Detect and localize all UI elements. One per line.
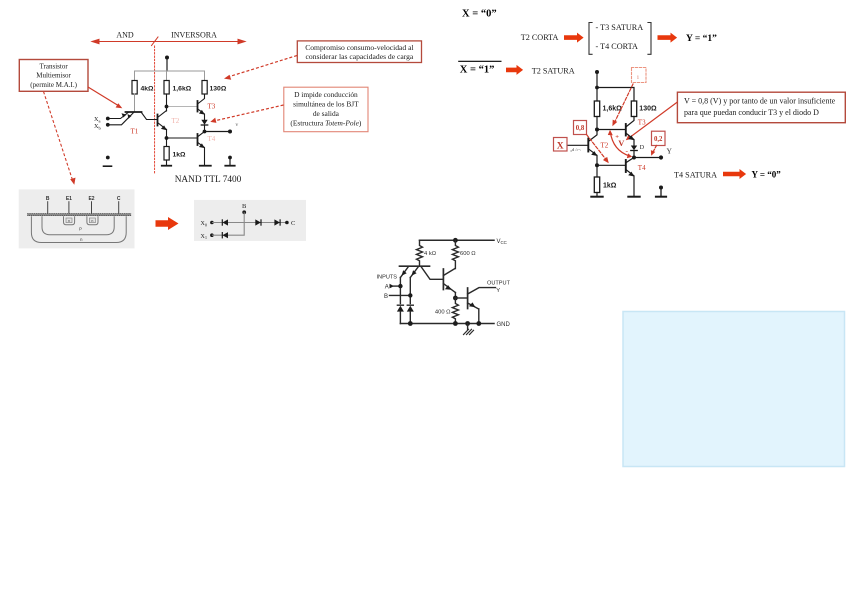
svg-text:T4 SATURA: T4 SATURA bbox=[674, 170, 717, 179]
n region outline bbox=[31, 216, 126, 242]
Vcc terminal dot bbox=[595, 70, 599, 74]
svg-text:n: n bbox=[68, 219, 70, 223]
T1 input dot Xb bbox=[106, 123, 110, 127]
node B dot bbox=[242, 210, 246, 214]
T1 emitter 2 bbox=[109, 113, 134, 125]
T4 emitter with arrow bbox=[626, 170, 634, 197]
svg-text:T3: T3 bbox=[638, 119, 646, 127]
svg-text:1,6kΩ: 1,6kΩ bbox=[173, 86, 192, 93]
T3 collector bbox=[626, 117, 634, 128]
terminal stub E2 bbox=[91, 201, 93, 213]
svg-text:T2 SATURA: T2 SATURA bbox=[532, 66, 575, 75]
svg-text:AND: AND bbox=[116, 31, 134, 40]
svg-text:0,8: 0,8 bbox=[576, 125, 585, 132]
SECTION: middle scanned circuit bbox=[377, 238, 511, 335]
svg-text:T3: T3 bbox=[208, 103, 216, 111]
svg-text:0,2: 0,2 bbox=[654, 136, 663, 143]
transistor T3 base bar bbox=[197, 101, 199, 112]
wire B to C bbox=[244, 222, 287, 224]
svg-text:B: B bbox=[46, 196, 50, 202]
T4 collector bbox=[198, 132, 205, 137]
diode B-X0 (points left) bbox=[221, 219, 223, 225]
SECTION: annotations bbox=[19, 41, 421, 185]
svg-text:T2: T2 bbox=[172, 117, 180, 125]
svg-text:T4: T4 bbox=[208, 135, 216, 143]
block arrow 1 bbox=[564, 33, 584, 43]
svg-text:600 Ω: 600 Ω bbox=[460, 251, 476, 257]
T2 input wire from X bbox=[568, 144, 589, 146]
svg-text:C: C bbox=[291, 220, 295, 227]
SECTION: top-right analysis bbox=[458, 9, 845, 180]
svg-text:VCC: VCC bbox=[497, 239, 507, 245]
svg-text:para que puedan conducir T3 y: para que puedan conducir T3 y el diodo D bbox=[684, 108, 819, 117]
dashed arrow 0,8 to T4 base bbox=[587, 135, 607, 160]
Q2 emitter with arrow bbox=[443, 284, 455, 293]
svg-text:Compromiso consumo-velocidad a: Compromiso consumo-velocidad al bbox=[305, 43, 413, 52]
dashed arrow box to cross-section bbox=[44, 92, 73, 181]
svg-text:n: n bbox=[91, 219, 93, 223]
clamp diode A bbox=[397, 304, 403, 306]
right bracket bbox=[647, 23, 651, 55]
Q3 collector to OUTPUT bbox=[468, 288, 496, 294]
SECTION: right circuit X=1 bbox=[554, 68, 673, 197]
resistor 1k bbox=[166, 138, 168, 147]
SECTION: cross-section panel bbox=[19, 189, 135, 248]
svg-text:D impide conducción: D impide conducción bbox=[294, 90, 358, 99]
svg-text:X0: X0 bbox=[201, 221, 208, 227]
wire 1,6k to node bbox=[596, 117, 598, 130]
transistor T1 multi-emitter base bar bbox=[126, 111, 142, 113]
svg-text:Y = “1”: Y = “1” bbox=[686, 33, 717, 44]
svg-text:T2 CORTA: T2 CORTA bbox=[521, 33, 559, 42]
T2 collector bbox=[158, 111, 167, 118]
svg-text:₀d ⌂¬: ₀d ⌂¬ bbox=[571, 147, 581, 152]
red dashed current box bbox=[632, 68, 647, 83]
T2 collector bbox=[588, 130, 597, 142]
svg-text:D: D bbox=[640, 145, 645, 151]
svg-text:V: V bbox=[618, 138, 625, 148]
terminal stub C bbox=[118, 201, 120, 213]
T3 collector bbox=[198, 94, 205, 104]
ground stub right bbox=[228, 156, 232, 160]
svg-text:Y: Y bbox=[667, 147, 673, 156]
resistor 4k (zigzag) bbox=[417, 240, 423, 266]
svg-text:v: v bbox=[236, 122, 239, 128]
node T2 emitter / T4 base / 1k bbox=[165, 136, 169, 140]
ground symbol stub bbox=[467, 324, 469, 330]
ground under 1k bbox=[162, 165, 171, 167]
X1 terminal dot bbox=[210, 233, 214, 237]
block arrow 2 bbox=[658, 33, 678, 43]
transistor T3 base bar bbox=[625, 124, 627, 136]
ground under T4 bbox=[200, 165, 211, 167]
wire output bbox=[205, 131, 231, 133]
resistor 400 (zigzag) bbox=[452, 298, 458, 324]
input emitter B diagonal bbox=[410, 267, 418, 278]
transistor Q3 base bar bbox=[467, 288, 469, 309]
wire Vcc down bbox=[596, 72, 598, 88]
callout box: Compromiso consumo-velocidad bbox=[297, 41, 421, 63]
transistor T4 base bar bbox=[625, 160, 627, 172]
resistor 1,6k bbox=[594, 101, 599, 117]
GND rail bbox=[400, 323, 494, 325]
panel background bbox=[194, 200, 306, 241]
output node bbox=[203, 130, 207, 134]
diode D bbox=[631, 146, 637, 151]
svg-text:4kΩ: 4kΩ bbox=[141, 86, 155, 93]
svg-text:130Ω: 130Ω bbox=[210, 86, 227, 93]
svg-text:X: X bbox=[557, 141, 564, 151]
svg-text:400 Ω: 400 Ω bbox=[435, 310, 451, 316]
wire node to T3 base bbox=[167, 106, 198, 108]
svg-text:- T4 CORTA: - T4 CORTA bbox=[596, 42, 638, 51]
input line A vertical bbox=[399, 278, 401, 304]
resistor 4k bbox=[132, 81, 137, 95]
T3 emitter with arrow bbox=[626, 133, 634, 145]
ground under T4 bbox=[628, 196, 639, 198]
transistor Q2 base bar bbox=[442, 269, 444, 290]
C terminal dot bbox=[285, 221, 289, 225]
red dashed divider line bbox=[154, 46, 156, 174]
svg-text:A: A bbox=[385, 285, 389, 291]
callout box: D impide conduccion bbox=[284, 87, 368, 132]
Vcc rail bbox=[420, 239, 495, 241]
T4 base wire bbox=[167, 137, 198, 139]
wire X0 row bbox=[212, 222, 244, 224]
ground stub right bbox=[659, 186, 663, 190]
svg-text:(Estructura Totem-Pole): (Estructura Totem-Pole) bbox=[290, 118, 362, 127]
n-well E1 bbox=[64, 216, 75, 225]
output node dot bbox=[632, 156, 636, 160]
wire node to T3 base bbox=[597, 129, 625, 131]
svg-text:E1: E1 bbox=[66, 196, 72, 202]
dashed arrow 0,2 to Y node bbox=[653, 146, 657, 153]
callout box: V = 0,8 insuficiente bbox=[677, 92, 845, 123]
resistor 600 (zigzag) bbox=[452, 240, 458, 268]
node T2 emitter / T4 base bbox=[595, 163, 599, 167]
output terminal dot bbox=[228, 130, 232, 134]
transistor T4 base bar bbox=[197, 134, 199, 145]
wire Vcc down bbox=[166, 58, 168, 72]
T3 emitter with arrow bbox=[198, 109, 205, 120]
X0 terminal dot bbox=[210, 221, 214, 225]
svg-text:T1: T1 bbox=[131, 128, 139, 136]
svg-text:B: B bbox=[242, 203, 247, 210]
overline of X=1 bbox=[458, 60, 501, 62]
ground stub left inputs bbox=[106, 156, 110, 160]
node Q2 emitter / Q3 base bbox=[453, 296, 458, 301]
terminal stub E1 bbox=[68, 201, 70, 213]
panel background bbox=[19, 189, 135, 248]
wire top rail bbox=[135, 71, 205, 94]
Q3 base wire bbox=[455, 297, 467, 299]
wire to output bbox=[634, 157, 661, 159]
block arrow 3 bbox=[506, 65, 523, 75]
T1 input dot Xa bbox=[106, 117, 110, 121]
output terminal dot bbox=[659, 155, 663, 159]
wire B down bbox=[243, 212, 245, 222]
svg-text:T4: T4 bbox=[638, 164, 646, 172]
red box X input bbox=[554, 138, 568, 152]
left bracket bbox=[589, 23, 593, 55]
input line B vertical bbox=[409, 278, 411, 304]
dashed arrow compromiso to 130ohm bbox=[228, 56, 297, 78]
svg-text:1,6kΩ: 1,6kΩ bbox=[603, 105, 623, 112]
resistor 1k bbox=[596, 165, 598, 177]
T1 collector wire to T2 bbox=[142, 113, 158, 120]
diode B-C second (points right) bbox=[274, 219, 280, 225]
SECTION: left NAND TTL circuit bbox=[92, 31, 245, 186]
voltage arc V bbox=[610, 132, 629, 156]
ground hatches bbox=[464, 329, 469, 334]
Vcc terminal dot bbox=[165, 56, 169, 60]
svg-text:- T3 SATURA: - T3 SATURA bbox=[596, 23, 644, 32]
svg-text:1kΩ: 1kΩ bbox=[603, 183, 617, 190]
svg-text:P: P bbox=[79, 227, 82, 232]
diode B-X1 (points left) bbox=[221, 232, 223, 238]
SECTION: blue box bbox=[623, 312, 845, 467]
svg-text:T2: T2 bbox=[601, 142, 609, 150]
terminal stub B bbox=[47, 201, 49, 213]
svg-text:de salida: de salida bbox=[313, 109, 340, 118]
svg-text:B: B bbox=[384, 294, 388, 300]
arrow V=0,8 box to T3 bbox=[629, 102, 677, 138]
T4 base wire bbox=[597, 164, 625, 166]
light blue rectangle bbox=[623, 312, 845, 467]
svg-text:GND: GND bbox=[497, 322, 511, 328]
P region outline bbox=[42, 216, 114, 235]
resistor 130 bbox=[202, 81, 207, 95]
svg-text:4 kΩ: 4 kΩ bbox=[424, 251, 437, 257]
svg-text:simultánea de los BJT: simultánea de los BJT bbox=[293, 100, 359, 109]
svg-text:X = “1”: X = “1” bbox=[460, 65, 495, 76]
clamp diode B bbox=[407, 304, 413, 306]
T4 collector bbox=[626, 158, 634, 163]
resistor 1,6k bbox=[164, 81, 169, 95]
metal layer bar bbox=[27, 213, 131, 216]
resistor 130 bbox=[631, 101, 636, 117]
svg-text:E2: E2 bbox=[88, 196, 94, 202]
Vcc rail node dot bbox=[453, 238, 458, 243]
svg-text:OUTPUT: OUTPUT bbox=[487, 280, 511, 286]
svg-text:NAND TTL 7400: NAND TTL 7400 bbox=[175, 175, 242, 185]
svg-text:130Ω: 130Ω bbox=[639, 105, 657, 112]
input transistor base bar bbox=[400, 265, 430, 267]
svg-text:X = “0”: X = “0” bbox=[462, 9, 497, 20]
dashed arrow current box to node wire bbox=[615, 84, 634, 123]
block arrow 4 bbox=[723, 169, 746, 179]
ground under 1k bbox=[591, 196, 602, 198]
diode D bbox=[201, 120, 207, 125]
slash tick on divider bbox=[152, 37, 159, 46]
transistor T2 base bar bbox=[157, 115, 159, 126]
input transistor collector bbox=[421, 267, 443, 280]
diode B-C first (points right) bbox=[255, 219, 260, 225]
svg-text:Transistor: Transistor bbox=[40, 63, 69, 71]
svg-text:(permite M.A.I.): (permite M.A.I.) bbox=[30, 81, 77, 89]
top rail node dot bbox=[595, 86, 599, 90]
wire top rail bbox=[597, 88, 634, 102]
T4 emitter with arrow bbox=[198, 142, 205, 165]
wire 4k to T1 base bbox=[134, 94, 136, 112]
solid arrow box to T1 bbox=[88, 87, 119, 106]
T2 emitter with arrow bbox=[588, 149, 597, 166]
T1 emitter 1 bbox=[109, 113, 128, 119]
svg-text:INPUTS: INPUTS bbox=[377, 275, 398, 281]
red box 0,8 bbox=[574, 121, 587, 135]
Q3 emitter with arrow bbox=[468, 303, 479, 309]
block arrow between panels bbox=[156, 217, 179, 230]
svg-text:C: C bbox=[117, 196, 121, 202]
svg-text:Multiemisor: Multiemisor bbox=[36, 72, 71, 80]
SECTION: diode equivalent panel bbox=[156, 200, 307, 241]
node dot T2 collector bbox=[595, 128, 599, 132]
double-headed red span arrow bbox=[92, 39, 245, 43]
svg-text:X1: X1 bbox=[201, 234, 208, 240]
callout box: Transistor Multiemisor bbox=[19, 60, 88, 92]
n-well E2 bbox=[87, 216, 98, 225]
red box 0,2 bbox=[652, 131, 666, 145]
svg-text:1kΩ: 1kΩ bbox=[173, 152, 187, 159]
input emitter A diagonal bbox=[400, 267, 408, 278]
dashed arrow D impide to diode bbox=[214, 105, 284, 121]
wire X1 row and bend up to B bbox=[212, 223, 244, 236]
svg-text:INVERSORA: INVERSORA bbox=[171, 31, 217, 40]
transistor T2 base bar bbox=[587, 139, 589, 152]
node: 1,6k / T2 collector junction bbox=[166, 94, 168, 107]
svg-text:Y = “0”: Y = “0” bbox=[752, 170, 782, 180]
rail junction dots bbox=[408, 321, 413, 326]
svg-text:Y: Y bbox=[496, 288, 500, 294]
svg-text:V = 0,8 (V) y por tanto de un: V = 0,8 (V) y por tanto de un valor insu… bbox=[684, 97, 836, 106]
Q2 collector bbox=[443, 269, 455, 276]
svg-text:considerar las capacidades de: considerar las capacidades de carga bbox=[305, 52, 413, 61]
T2 emitter with arrow bbox=[158, 123, 167, 130]
